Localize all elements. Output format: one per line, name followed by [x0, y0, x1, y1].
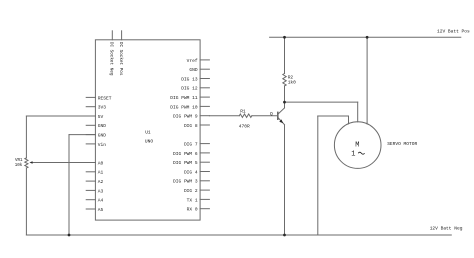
- svg-text:12V Batt Neg: 12V Batt Neg: [430, 226, 463, 232]
- svg-text:DIG 8: DIG 8: [184, 123, 198, 129]
- svg-text:DIG 4: DIG 4: [184, 169, 198, 175]
- svg-text:Q: Q: [270, 111, 273, 117]
- svg-text:A4: A4: [98, 198, 104, 204]
- svg-text:Vref: Vref: [187, 58, 198, 64]
- svg-text:3V3: 3V3: [98, 105, 106, 111]
- svg-text:Vin: Vin: [98, 142, 106, 148]
- svg-text:VR1: VR1: [15, 159, 23, 163]
- svg-text:DIG PWM 10: DIG PWM 10: [170, 104, 198, 110]
- svg-text:M: M: [355, 141, 359, 149]
- svg-text:DIG PWM 5: DIG PWM 5: [173, 160, 198, 166]
- svg-text:DIG PWM 6: DIG PWM 6: [173, 151, 198, 157]
- svg-text:12V Batt Pos: 12V Batt Pos: [437, 28, 470, 34]
- svg-text:DIG 12: DIG 12: [181, 86, 198, 92]
- svg-text:SERVO MOTOR: SERVO MOTOR: [387, 141, 417, 147]
- svg-text:TX 1: TX 1: [187, 197, 198, 203]
- svg-text:DIG PWM 3: DIG PWM 3: [173, 179, 198, 185]
- svg-text:GND: GND: [98, 133, 106, 139]
- svg-text:1: 1: [351, 151, 355, 159]
- svg-text:DIG 13: DIG 13: [181, 76, 198, 82]
- svg-text:UNO: UNO: [145, 139, 153, 145]
- svg-text:A0: A0: [98, 160, 104, 166]
- svg-text:DIG 2: DIG 2: [184, 188, 198, 194]
- svg-text:GND: GND: [189, 67, 197, 73]
- svg-text:A3: A3: [98, 188, 104, 194]
- svg-text:DIG 7: DIG 7: [184, 142, 198, 148]
- svg-text:470R: 470R: [239, 123, 250, 129]
- svg-text:1k0: 1k0: [288, 79, 296, 85]
- svg-text:A2: A2: [98, 179, 104, 185]
- svg-text:DC Socket Neg: DC Socket Neg: [109, 42, 114, 76]
- svg-text:U1: U1: [145, 129, 151, 135]
- svg-text:5V: 5V: [98, 114, 104, 120]
- svg-text:10k: 10k: [15, 163, 23, 168]
- svg-text:R1: R1: [240, 108, 246, 114]
- svg-text:DIG PWM 11: DIG PWM 11: [170, 95, 198, 101]
- svg-text:RESET: RESET: [98, 95, 112, 101]
- svg-text:A1: A1: [98, 170, 104, 176]
- svg-text:RX 0: RX 0: [187, 207, 198, 213]
- svg-text:GND: GND: [98, 123, 106, 129]
- svg-text:DIG PWM 9: DIG PWM 9: [173, 114, 198, 120]
- svg-text:DC Socket Pos: DC Socket Pos: [118, 42, 123, 76]
- svg-text:A5: A5: [98, 207, 104, 213]
